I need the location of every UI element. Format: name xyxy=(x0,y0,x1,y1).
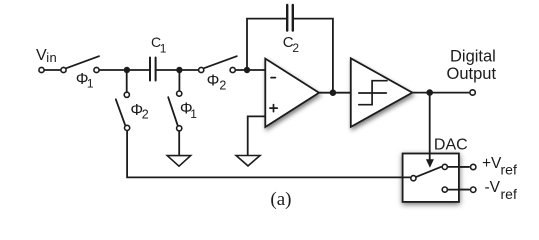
svg-text:(a): (a) xyxy=(270,189,291,210)
svg-text:1: 1 xyxy=(190,107,197,121)
svg-text:Φ: Φ xyxy=(207,73,220,90)
svg-text:1: 1 xyxy=(87,76,94,90)
svg-text:2: 2 xyxy=(142,108,149,122)
svg-text:2: 2 xyxy=(292,41,299,55)
svg-text:DAC: DAC xyxy=(434,136,468,153)
svg-text:Output: Output xyxy=(447,65,497,83)
svg-text:+V: +V xyxy=(482,155,502,172)
svg-text:ref: ref xyxy=(501,186,517,202)
svg-text:-V: -V xyxy=(485,179,501,196)
svg-text:1: 1 xyxy=(160,41,167,55)
svg-text:2: 2 xyxy=(219,79,226,93)
svg-text:in: in xyxy=(46,50,57,65)
svg-text:Digital: Digital xyxy=(450,47,496,65)
svg-text:ref: ref xyxy=(501,162,517,178)
